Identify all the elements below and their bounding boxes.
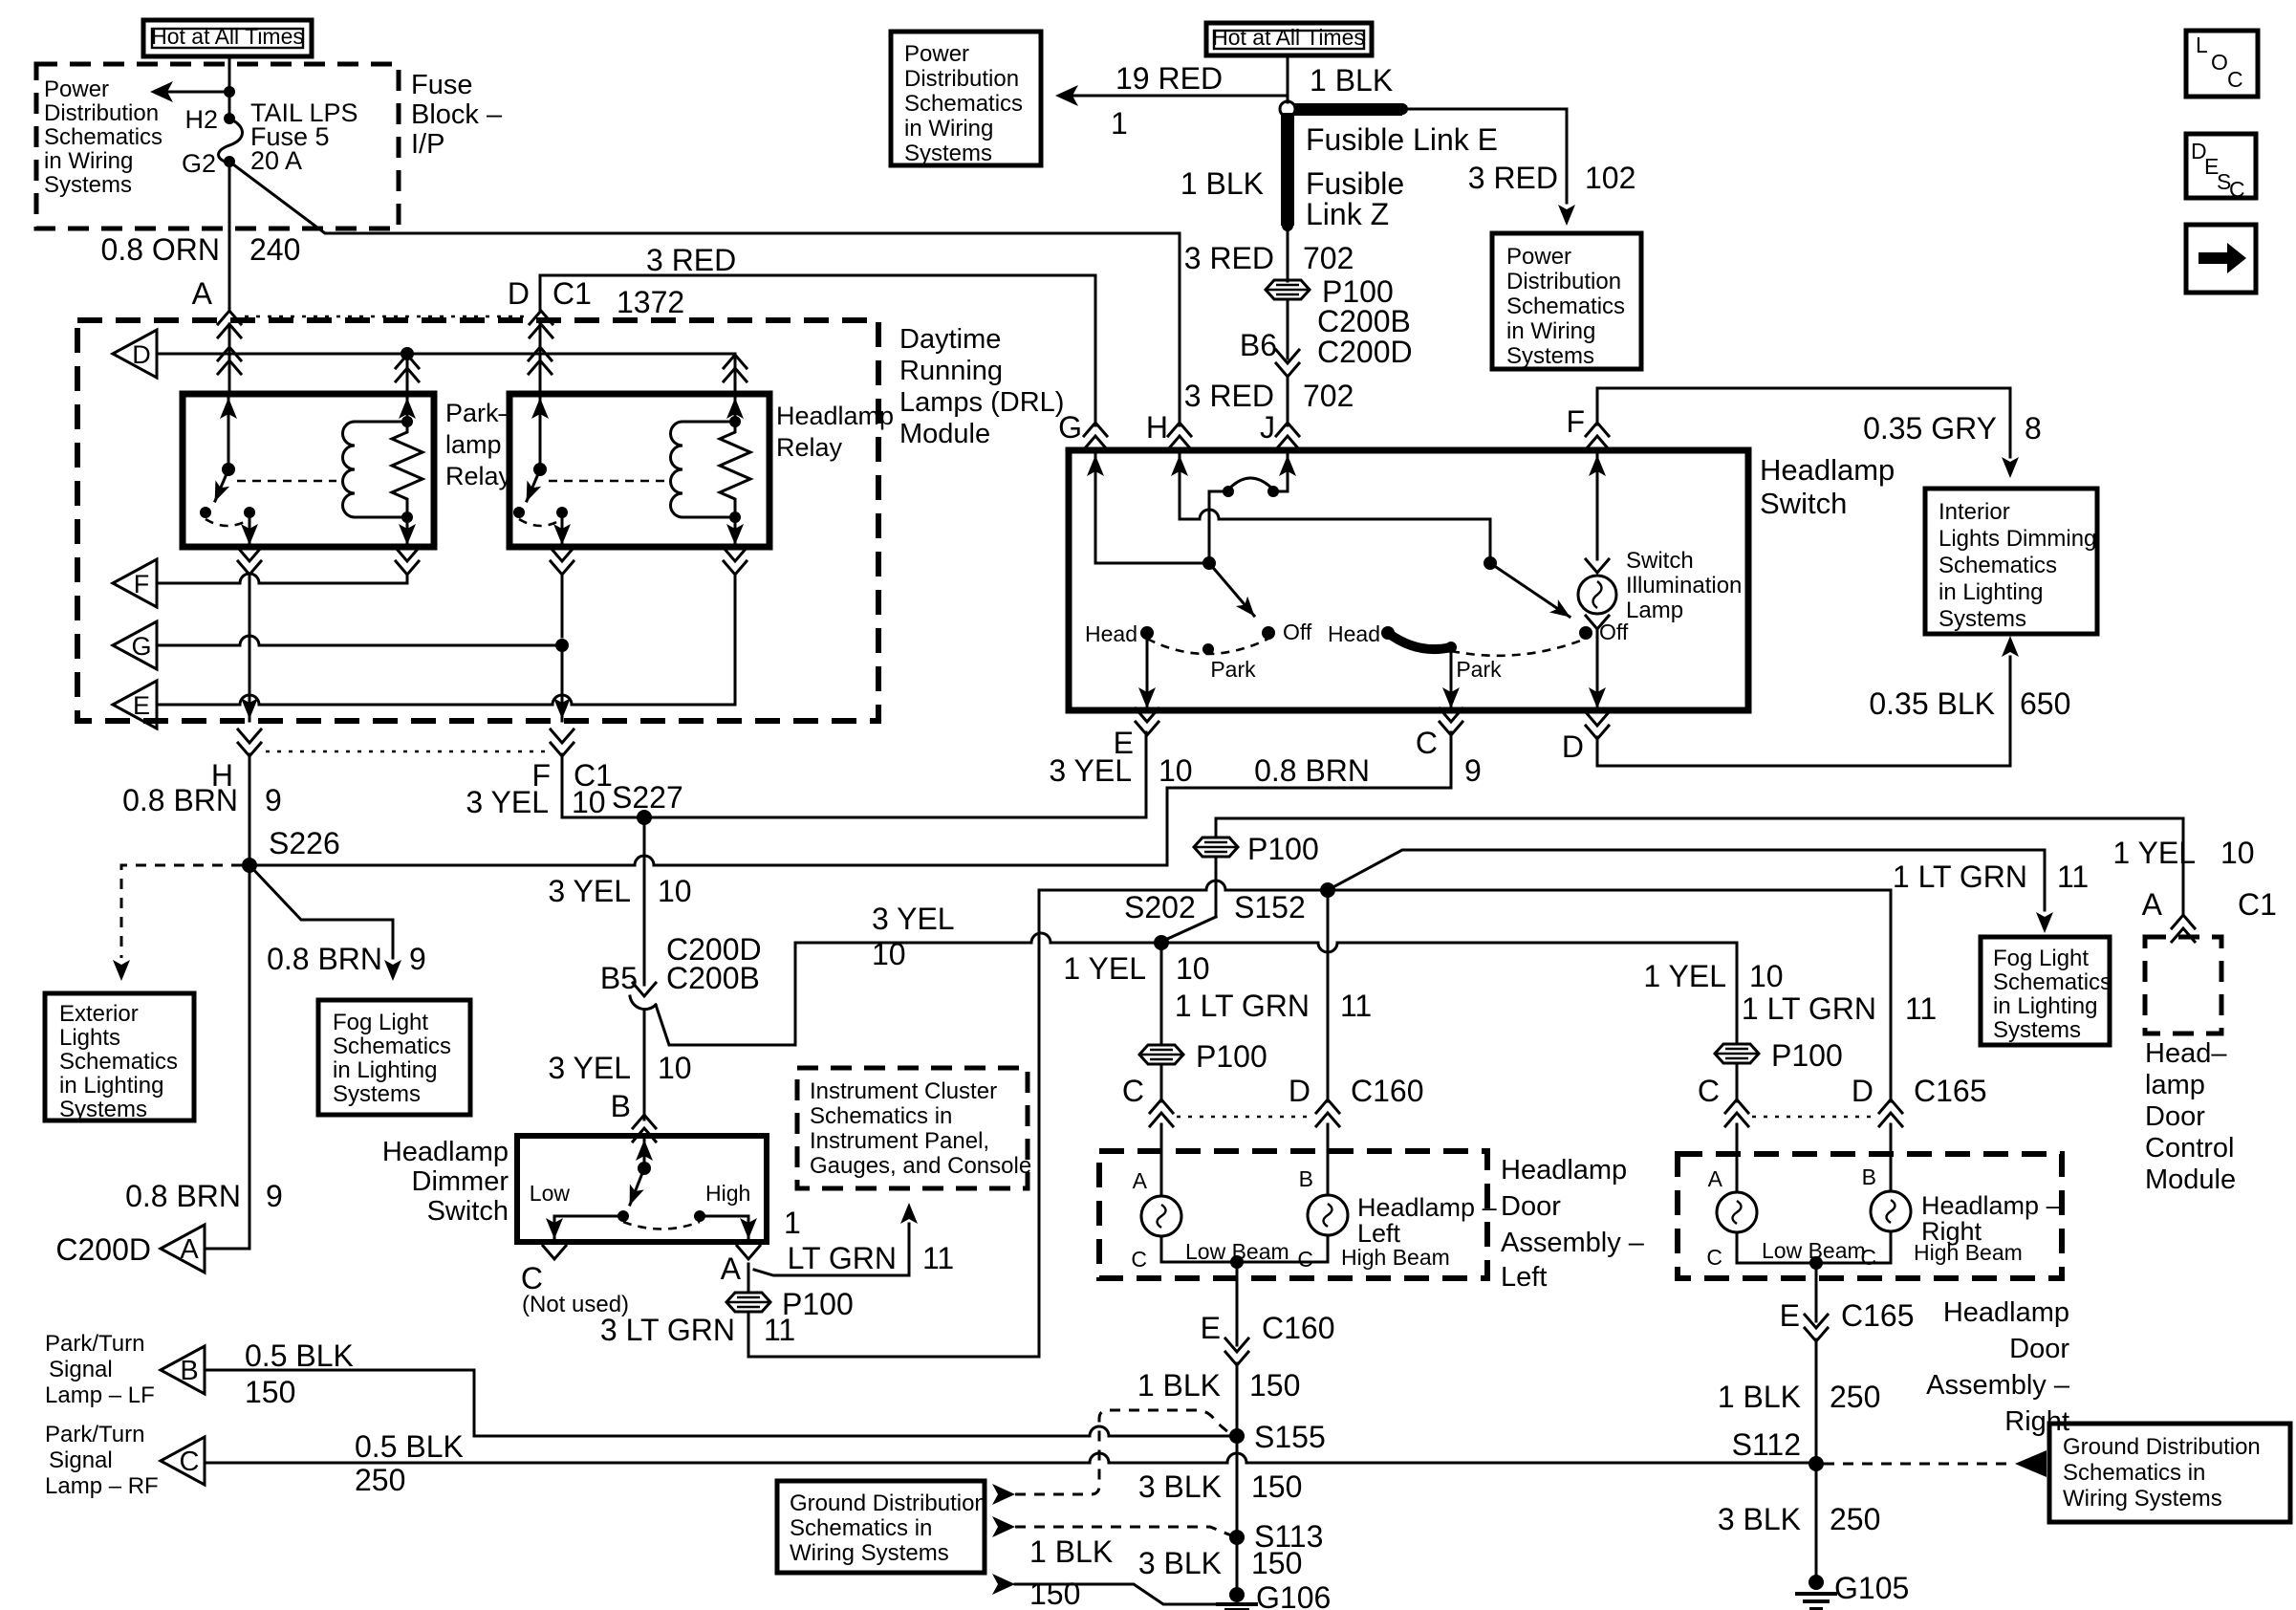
svg-text:0.8 BRN: 0.8 BRN — [122, 783, 238, 817]
svg-text:Fog Light: Fog Light — [1993, 946, 2089, 971]
wire 3 RED 1372 from C1 D to switch G — [540, 243, 1095, 425]
svg-text:Lamp – LF: Lamp – LF — [45, 1382, 155, 1408]
connector F at switch — [1566, 404, 1609, 449]
wire 1 YEL 10 label (S202 down) — [1063, 943, 1209, 1043]
svg-text:Park: Park — [1210, 657, 1256, 682]
svg-text:11: 11 — [922, 1241, 954, 1275]
note Fog Light box (right) — [1981, 937, 2112, 1045]
svg-text:P100: P100 — [1196, 1039, 1267, 1074]
node S227 — [612, 780, 683, 825]
triangle pin C park/turn RF — [45, 1422, 205, 1499]
svg-text:C: C — [1297, 1247, 1313, 1272]
fusible link Z (thick bar) — [1180, 113, 1404, 231]
left assembly dashed box — [1099, 1151, 1487, 1278]
note Interior Lights Dimming box — [1925, 489, 2097, 634]
wire 0.5 BLK 150 LF to S155 — [205, 1338, 1229, 1436]
svg-text:Headlamp –: Headlamp – — [1921, 1191, 2061, 1220]
switch1 pivot and blade — [1202, 556, 1254, 616]
svg-text:D: D — [1852, 1074, 1874, 1108]
triangle pin F — [113, 559, 157, 607]
note Power Distribution box (right) — [1492, 233, 1641, 369]
svg-text:C160: C160 — [1351, 1074, 1424, 1108]
svg-text:Relay: Relay — [445, 462, 512, 490]
ground G105 — [1795, 1571, 1909, 1609]
wire 3 BLK 150 S113 to G106 — [1138, 1537, 1303, 1595]
svg-text:1 YEL: 1 YEL — [1643, 959, 1726, 993]
svg-text:Schematics: Schematics — [44, 124, 162, 150]
svg-text:Schematics: Schematics — [904, 91, 1023, 117]
svg-text:Running: Running — [899, 356, 1003, 386]
svg-text:Park: Park — [1456, 657, 1502, 682]
svg-text:Park–: Park– — [445, 399, 513, 427]
svg-text:C: C — [1698, 1074, 1720, 1108]
svg-text:S202: S202 — [1124, 890, 1196, 925]
svg-text:11: 11 — [1905, 991, 1937, 1026]
svg-text:Schematics: Schematics — [1939, 553, 2057, 578]
svg-text:Power: Power — [1506, 244, 1571, 270]
svg-text:H2: H2 — [184, 105, 218, 134]
label Headlamp - Left — [1357, 1193, 1497, 1248]
svg-text:B: B — [1299, 1166, 1313, 1191]
svg-text:D: D — [132, 340, 151, 369]
fusible link E (thick bar) — [1294, 63, 1498, 157]
connector F C1 below DRL — [531, 729, 612, 793]
svg-text:10: 10 — [658, 874, 692, 908]
svg-text:240: 240 — [249, 232, 300, 267]
svg-text:A: A — [1133, 1168, 1148, 1193]
svg-text:3 LT GRN: 3 LT GRN — [600, 1313, 735, 1347]
dimmer contacts Low High — [530, 1181, 751, 1229]
dotted connector line C1 bottom — [266, 751, 547, 753]
wire fuse output diagonal to headlamp switch H — [229, 162, 1180, 233]
svg-text:D: D — [1562, 729, 1584, 764]
svg-text:150: 150 — [1251, 1546, 1302, 1580]
svg-text:H: H — [1146, 410, 1168, 445]
svg-text:20 A: 20 A — [250, 146, 302, 175]
svg-text:1 BLK: 1 BLK — [1180, 166, 1264, 201]
svg-text:in Wiring: in Wiring — [1506, 318, 1595, 344]
svg-text:9: 9 — [409, 942, 426, 976]
headlamp relay resistor — [720, 422, 750, 517]
wire 1 YEL 10 label (door control) — [2112, 836, 2254, 870]
svg-text:Fusible: Fusible — [1306, 166, 1404, 201]
wire 3 RED 702 to switch J — [1184, 377, 1354, 425]
svg-text:Ground Distribution: Ground Distribution — [790, 1490, 987, 1516]
svg-text:Signal: Signal — [49, 1357, 113, 1382]
switch2 pivot and blade — [1484, 556, 1570, 617]
connector B at dimmer — [611, 1089, 656, 1142]
wire 3 YEL 10 from F/C1 to S227 — [466, 754, 637, 819]
switch2 output to C — [1442, 647, 1460, 710]
svg-text:0.8 BRN: 0.8 BRN — [267, 942, 382, 976]
right low beam bulb — [1706, 1124, 1757, 1270]
connector H below DRL — [211, 729, 261, 793]
wire F to park coil output — [157, 574, 407, 583]
note Instrument Cluster text — [810, 1078, 1031, 1179]
dotted connector line C1 — [245, 315, 526, 318]
connector C C165 (right) — [1698, 1074, 1748, 1126]
wire H down to S226 — [122, 754, 282, 865]
DESC box — [2186, 134, 2256, 202]
svg-text:3 RED: 3 RED — [646, 243, 736, 277]
svg-text:Dimmer: Dimmer — [412, 1166, 509, 1197]
svg-text:19 RED: 19 RED — [1116, 61, 1223, 96]
svg-text:S152: S152 — [1234, 890, 1306, 925]
svg-text:Ground Distribution: Ground Distribution — [2063, 1434, 2261, 1460]
right high beam bulb — [1860, 1124, 1911, 1270]
svg-text:C200B: C200B — [666, 961, 760, 995]
svg-text:B: B — [611, 1089, 631, 1123]
svg-text:LT GRN: LT GRN — [788, 1241, 897, 1275]
instrument cluster dashed box — [797, 1068, 1028, 1188]
wire 1 LT GRN 11 label (right headlamp D) — [1742, 991, 1937, 1026]
connector G at switch — [1058, 410, 1107, 449]
svg-text:Door: Door — [1501, 1191, 1561, 1222]
dotted connector line C160 — [1177, 1116, 1312, 1119]
headlamp door control module dashed box — [2145, 937, 2221, 1033]
svg-text:Module: Module — [899, 419, 990, 449]
svg-text:Headlamp: Headlamp — [1760, 453, 1895, 487]
wire 0.8 ORN 240 down to DRL A — [101, 162, 301, 312]
svg-text:10: 10 — [658, 1051, 692, 1085]
connector J at switch — [1260, 410, 1299, 449]
svg-text:Schematics: Schematics — [1993, 969, 2112, 995]
relay K2 headlamp relay box — [509, 394, 769, 547]
svg-text:Instrument Panel,: Instrument Panel, — [810, 1128, 989, 1154]
svg-text:3 BLK: 3 BLK — [1138, 1469, 1222, 1504]
svg-text:Schematics in: Schematics in — [790, 1515, 932, 1541]
label Park-lamp Relay — [445, 399, 513, 490]
svg-text:Headlamp: Headlamp — [776, 402, 894, 430]
Hot at All Times box (left) — [143, 20, 312, 56]
switch J internal wire + rotary contact — [1209, 450, 1296, 563]
headlamp relay switch output — [553, 512, 571, 547]
node S112 — [1732, 1427, 1824, 1471]
svg-text:B: B — [180, 1356, 198, 1386]
labels Low Beam High Beam (right) — [1762, 1238, 2023, 1265]
svg-text:C: C — [180, 1447, 200, 1477]
svg-text:in Wiring: in Wiring — [904, 116, 993, 141]
svg-text:G2: G2 — [182, 149, 216, 178]
node below fusible link Z — [1282, 220, 1293, 231]
park relay contacts — [200, 507, 255, 526]
triangle pin B park/turn LF — [45, 1331, 205, 1408]
svg-text:F: F — [1566, 404, 1585, 439]
wire 3 LT GRN 11 to riser — [600, 1312, 1039, 1357]
connector A C1 (door control module) — [2142, 887, 2277, 942]
wire from hot feed down — [228, 56, 231, 119]
wire S227 down to B5 — [548, 817, 691, 985]
svg-text:250: 250 — [1830, 1380, 1880, 1414]
fuse block I/P dashed box — [36, 64, 399, 228]
dashed ground wire to S155 — [992, 1410, 1229, 1505]
svg-text:1 YEL: 1 YEL — [1063, 951, 1146, 986]
wire hot feed down — [1287, 55, 1289, 102]
connector C C160 (left) — [1122, 1074, 1173, 1126]
wire 3 BLK 250 S112 to G105 — [1718, 1464, 1881, 1582]
dashed ground wire to S113 — [992, 1516, 1231, 1537]
svg-text:Distribution: Distribution — [1506, 269, 1621, 294]
connector E C165 — [1780, 1298, 1915, 1341]
DRL module dashed box — [77, 320, 878, 721]
wire 3 RED 702 to P100 — [1184, 226, 1354, 281]
svg-text:Daytime: Daytime — [899, 324, 1001, 355]
dimmer switch box — [517, 1136, 767, 1242]
wire S202 line continuing to right headlamp C — [1161, 943, 1737, 1042]
svg-text:3 YEL: 3 YEL — [548, 874, 631, 908]
svg-text:in Lighting: in Lighting — [333, 1057, 437, 1083]
svg-text:Assembly –: Assembly – — [1501, 1228, 1645, 1258]
wire 3 YEL 10 switch E label — [1049, 753, 1192, 788]
svg-text:A: A — [721, 1251, 742, 1286]
svg-text:1 BLK: 1 BLK — [1029, 1534, 1113, 1569]
switch1 contacts Head Park Off — [1085, 620, 1312, 682]
headlamp relay contacts — [513, 507, 568, 526]
wire to C/C160 — [1160, 1064, 1163, 1101]
svg-text:L: L — [2196, 33, 2208, 57]
svg-text:in Lighting: in Lighting — [59, 1073, 163, 1099]
svg-text:1 LT GRN: 1 LT GRN — [1893, 859, 2027, 894]
node S113 — [1229, 1519, 1323, 1554]
svg-text:S226: S226 — [269, 826, 340, 860]
wire headlamp switch output down (to F/C1) — [553, 575, 571, 721]
svg-text:Switch: Switch — [1626, 548, 1694, 574]
connector E C160 — [1201, 1311, 1335, 1365]
wire P100 feed (door control) — [1163, 818, 2183, 941]
headlamp relay actuator dashed — [549, 480, 665, 483]
svg-text:3 YEL: 3 YEL — [466, 785, 549, 819]
svg-text:Fog Light: Fog Light — [333, 1010, 428, 1035]
headlamp relay coil output — [726, 517, 744, 547]
svg-text:Low: Low — [530, 1181, 571, 1206]
switch illumination lamp — [1578, 450, 1616, 710]
svg-text:in Lighting: in Lighting — [1993, 993, 2097, 1019]
svg-text:A: A — [1708, 1166, 1723, 1191]
wire 1 LT GRN 11 (S152 down) — [1175, 898, 1372, 1101]
connector P100 (high beam) — [726, 1287, 854, 1321]
svg-text:Fusible Link E: Fusible Link E — [1306, 122, 1498, 157]
label Headlamp Switch — [1760, 453, 1895, 520]
svg-text:10: 10 — [1159, 753, 1193, 788]
wire D/C1 into headlamp relay — [529, 324, 552, 394]
wire 0.8 BRN 9 to fog lights — [249, 865, 426, 981]
svg-text:0.8 ORN: 0.8 ORN — [101, 232, 220, 267]
svg-text:C: C — [2227, 67, 2243, 92]
svg-text:Head–: Head– — [2145, 1038, 2227, 1069]
label Daytime Running Lamps (DRL) Module — [899, 324, 1064, 449]
svg-text:G: G — [1058, 410, 1082, 445]
svg-text:1 BLK: 1 BLK — [1310, 63, 1393, 98]
svg-text:Distribution: Distribution — [904, 66, 1019, 92]
park relay resistor — [392, 422, 422, 517]
svg-text:A: A — [180, 1234, 199, 1265]
svg-text:Lamp – RF: Lamp – RF — [45, 1473, 159, 1499]
svg-text:C200D: C200D — [55, 1232, 151, 1267]
svg-text:High: High — [705, 1181, 750, 1206]
note Power Distribution box (top middle) — [891, 32, 1041, 166]
svg-text:Exterior: Exterior — [59, 1001, 139, 1027]
svg-text:Off: Off — [1283, 620, 1312, 644]
svg-text:1 LT GRN: 1 LT GRN — [1742, 991, 1876, 1026]
connector C below switch — [1416, 708, 1462, 760]
svg-text:Headlamp: Headlamp — [1943, 1297, 2069, 1328]
dimmer high output A — [700, 1216, 760, 1259]
node G2 — [182, 149, 235, 178]
wire 1 LT GRN 11 branch to instrument cluster — [754, 1203, 954, 1275]
fusible link junction — [1280, 101, 1295, 117]
wire 0.8 BRN 9 label lower — [125, 1179, 283, 1213]
svg-text:B5: B5 — [600, 961, 638, 995]
svg-text:in Wiring: in Wiring — [44, 148, 133, 174]
svg-text:High Beam: High Beam — [1341, 1245, 1450, 1270]
connector H at switch — [1146, 410, 1191, 449]
svg-text:Systems: Systems — [1939, 606, 2026, 632]
svg-text:E: E — [1780, 1298, 1800, 1333]
svg-text:High Beam: High Beam — [1914, 1240, 2023, 1265]
svg-text:1372: 1372 — [617, 285, 684, 319]
dimmer input wire and pivot — [630, 1136, 653, 1205]
svg-text:1 BLK: 1 BLK — [1718, 1380, 1801, 1414]
label Headlamp Door Assembly - Left — [1501, 1155, 1645, 1293]
svg-text:3 YEL: 3 YEL — [872, 902, 955, 936]
wire 0.8 BRN 9 from switch C stepping to S226 — [985, 732, 1482, 865]
svg-text:Schematics in: Schematics in — [2063, 1460, 2205, 1486]
svg-text:Fuse: Fuse — [411, 70, 472, 100]
wire arrow to power distribution — [150, 81, 235, 102]
Hot at All Times box (middle) — [1206, 23, 1372, 55]
park relay coil output — [399, 517, 416, 547]
node S155 — [1229, 1420, 1326, 1454]
node H2 — [184, 105, 235, 134]
svg-text:10: 10 — [872, 937, 906, 971]
connector P100 (right headlamp C wire) — [1715, 1038, 1843, 1101]
svg-text:C200B: C200B — [1317, 304, 1411, 338]
svg-text:Power: Power — [44, 76, 109, 102]
relay K1 park lamp relay box — [183, 394, 434, 547]
wire 1 YEL 10 label (right headlamp C) — [1643, 959, 1783, 993]
connector D C1 — [508, 276, 592, 337]
park relay switch input — [220, 394, 237, 469]
label Headlamp Door Assembly - Right — [1926, 1297, 2070, 1437]
label Switch Illumination Lamp — [1626, 548, 1742, 623]
svg-text:0.35 GRY: 0.35 GRY — [1863, 411, 1997, 446]
svg-text:1 BLK: 1 BLK — [1137, 1368, 1221, 1403]
svg-text:E: E — [133, 691, 150, 720]
wire bulb commons to E (right) — [1737, 1256, 1891, 1321]
svg-text:Park/Turn: Park/Turn — [45, 1331, 144, 1357]
svg-text:11: 11 — [764, 1313, 795, 1347]
wire 3 YEL 10 branch to S202 line — [656, 933, 1161, 1045]
svg-text:A: A — [192, 276, 213, 311]
svg-text:Schematics: Schematics — [1506, 294, 1625, 319]
svg-text:Switch: Switch — [427, 1196, 509, 1227]
fuse TAIL LPS Fuse 5 20 A — [219, 119, 243, 163]
svg-text:8: 8 — [2025, 411, 2042, 446]
dashed wire to exterior lights — [113, 865, 242, 981]
svg-text:C1: C1 — [2238, 887, 2277, 922]
svg-text:G105: G105 — [1834, 1571, 1909, 1605]
svg-text:Hot at All Times: Hot at All Times — [151, 24, 304, 49]
svg-text:0.8 BRN: 0.8 BRN — [1254, 753, 1370, 788]
wire high beam riser to S152 line — [1039, 881, 1328, 1357]
left high beam bulb — [1297, 1124, 1348, 1272]
svg-text:10: 10 — [572, 785, 606, 819]
headlamp switch box — [1069, 450, 1748, 710]
label Head-lamp Door Control Module — [2145, 1038, 2236, 1195]
svg-text:3 RED: 3 RED — [1184, 379, 1274, 413]
wire bulb commons to E (left) — [1161, 1255, 1328, 1345]
switch2 contacts Head(closed) Park Off — [1328, 620, 1629, 682]
svg-text:A: A — [2142, 887, 2163, 922]
svg-text:3 BLK: 3 BLK — [1718, 1502, 1801, 1536]
headlamp relay coil — [671, 394, 745, 523]
svg-text:D: D — [508, 276, 530, 311]
svg-text:Systems: Systems — [44, 172, 132, 198]
svg-text:11: 11 — [2057, 859, 2089, 894]
svg-text:Lamps (DRL): Lamps (DRL) — [899, 387, 1064, 418]
triangle pin D — [113, 330, 157, 378]
connectors below relays — [238, 548, 261, 575]
svg-text:lamp: lamp — [445, 430, 502, 459]
svg-text:1 LT GRN: 1 LT GRN — [1175, 989, 1310, 1023]
svg-text:150: 150 — [245, 1375, 295, 1409]
label Fuse Block - I/P — [411, 70, 503, 160]
note Ground Distribution box (left) — [777, 1481, 987, 1573]
connector D C160 (left) — [1289, 1074, 1424, 1126]
park relay coil — [342, 394, 416, 523]
wire 1 BLK 250 to S112 — [1718, 1339, 1881, 1464]
triangle pin G — [113, 621, 157, 669]
svg-text:150: 150 — [1029, 1577, 1080, 1610]
svg-text:Signal: Signal — [49, 1447, 113, 1473]
svg-text:C: C — [1122, 1074, 1144, 1108]
svg-text:G: G — [131, 632, 151, 661]
svg-text:0.35 BLK: 0.35 BLK — [1869, 686, 1995, 721]
wire D to relay coils — [157, 347, 735, 360]
svg-text:3 BLK: 3 BLK — [1138, 1546, 1222, 1580]
svg-text:Hot at All Times: Hot at All Times — [1212, 25, 1365, 50]
svg-text:Park/Turn: Park/Turn — [45, 1422, 144, 1447]
svg-text:Systems: Systems — [904, 141, 992, 166]
connector P100 (J wire) — [1266, 274, 1394, 309]
svg-text:F: F — [134, 570, 150, 598]
note Power Distribution Schematics in Wiring Systems (fuse block) — [44, 76, 162, 198]
dimmer low output C (Not used) — [521, 1216, 629, 1317]
svg-text:Relay: Relay — [776, 433, 843, 462]
svg-text:150: 150 — [1249, 1368, 1300, 1403]
svg-text:C160: C160 — [1262, 1311, 1335, 1345]
wire E to headlamp coil output — [157, 575, 735, 705]
svg-text:Headlamp: Headlamp — [1501, 1155, 1627, 1186]
svg-text:C1: C1 — [552, 276, 592, 311]
switch G internal wire — [1087, 450, 1209, 563]
wire 3 RED 102 to power distribution box — [1402, 109, 1635, 226]
dashed wire S112 to ground distribution — [1824, 1450, 2047, 1477]
node fusible link E right end — [1397, 103, 1408, 115]
triangle pin A C200D — [55, 1225, 249, 1273]
svg-text:11: 11 — [1340, 989, 1372, 1023]
svg-text:S227: S227 — [612, 780, 683, 815]
svg-text:9: 9 — [1464, 753, 1482, 788]
svg-text:C165: C165 — [1914, 1074, 1987, 1108]
node S152 — [1234, 882, 1335, 925]
svg-text:D: D — [1289, 1074, 1310, 1108]
headlamp relay coil pin — [724, 354, 747, 394]
connector A (C1) — [218, 311, 241, 337]
labels C200D B5 C200B — [600, 932, 762, 995]
connector E below switch — [1114, 708, 1159, 760]
LOC box — [2186, 31, 2258, 97]
